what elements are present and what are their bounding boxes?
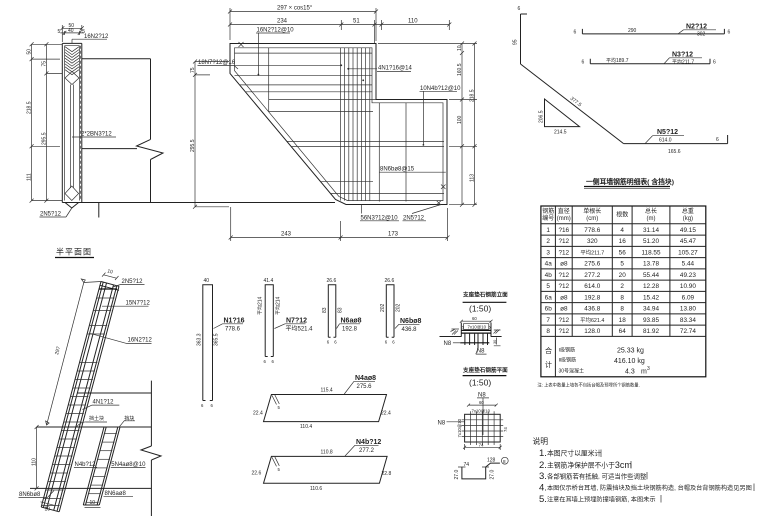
elevation: N8 label bottom — [476, 349, 487, 355]
svg-text:277.2: 277.2 — [359, 448, 375, 454]
right dim chain outer 218.5/113 — [470, 42, 477, 207]
svg-text:30号混凝土: 30号混凝土 — [559, 368, 585, 375]
svg-text:160.5: 160.5 — [457, 63, 463, 76]
svg-text:8N6bø8@15: 8N6bø8@15 — [380, 167, 415, 173]
bar N6aO8 U-shape — [322, 278, 344, 345]
dim 10 at strip top — [102, 268, 119, 280]
svg-text:173: 173 — [388, 232, 399, 238]
svg-text:ø8: ø8 — [560, 294, 568, 301]
svg-text:支座垫石钢筋立面: 支座垫石钢筋立面 — [462, 291, 508, 299]
svg-text:60: 60 — [472, 316, 477, 321]
slope triangle — [545, 99, 580, 127]
anchor mark bottom-right corner — [437, 201, 442, 205]
GROUP H: notes — [533, 436, 755, 505]
svg-text:10: 10 — [90, 500, 96, 506]
top dim row 234/51/110 — [228, 19, 451, 44]
svg-text:8: 8 — [620, 294, 624, 301]
svg-text:4.3: 4.3 — [625, 369, 635, 376]
svg-text:8: 8 — [620, 306, 624, 313]
bottom dim 243/173 — [229, 207, 450, 241]
svg-text:295.5: 295.5 — [41, 132, 47, 145]
svg-text:275.6: 275.6 — [357, 384, 373, 390]
svg-text:合: 合 — [545, 346, 552, 355]
svg-text:(cm): (cm) — [586, 216, 598, 222]
svg-text:平均211.7: 平均211.7 — [672, 58, 694, 65]
right block inner verticals — [379, 103, 406, 202]
elevation: cap box 7x10@10 — [462, 324, 491, 330]
left dim chain outer: 50 / 218.5 / 111 — [27, 42, 34, 202]
right dim extensions — [378, 44, 477, 205]
label 5N4aO8@10 — [111, 462, 146, 468]
svg-text:(mm): (mm) — [557, 216, 571, 222]
svg-text:(1:50): (1:50) — [469, 378, 491, 388]
svg-text:1: 1 — [546, 227, 550, 234]
right dim chain inner 10/160.5/100 — [457, 42, 464, 207]
ground line left of section — [99, 202, 335, 204]
label 15N7?12 — [102, 301, 151, 307]
bar N4b?12 parallelogram — [252, 449, 392, 491]
svg-text:20: 20 — [619, 272, 627, 279]
svg-text:3: 3 — [546, 249, 550, 256]
wire bottom — [82, 202, 151, 204]
GROUP E: bottom-left inclined elevation — [19, 268, 162, 516]
title 支座垫石钢筋立面 — [462, 291, 508, 314]
svg-text:根数: 根数 — [616, 211, 628, 219]
bar N3 line — [590, 59, 710, 64]
svg-text:2*2BN3?12: 2*2BN3?12 — [81, 132, 112, 138]
svg-text:74: 74 — [503, 427, 508, 432]
svg-text:93.85: 93.85 — [643, 317, 659, 324]
elevation: posts — [461, 323, 491, 337]
svg-text:5: 5 — [462, 326, 464, 330]
svg-text:6: 6 — [582, 59, 585, 65]
svg-text:?12: ?12 — [558, 317, 569, 324]
svg-text:7: 7 — [546, 317, 550, 324]
svg-text:总重: 总重 — [682, 207, 694, 215]
svg-text:N5?12: N5?12 — [657, 129, 678, 136]
bar N6bO8 U-shape — [380, 278, 402, 345]
svg-text:4b: 4b — [545, 272, 553, 279]
svg-text:165.6: 165.6 — [668, 149, 681, 155]
svg-text:41.4: 41.4 — [264, 278, 274, 284]
GROUP B: main cross-section view — [99, 6, 477, 242]
svg-text:778.6: 778.6 — [225, 327, 241, 333]
svg-text:218.5: 218.5 — [27, 101, 33, 114]
svg-text:7x10@10: 7x10@10 — [472, 409, 491, 414]
wall dashed bar line — [80, 46, 82, 201]
curved flare 挡块 — [119, 421, 135, 428]
title 半平面图 — [55, 247, 94, 258]
label N2?12 — [678, 23, 716, 37]
svg-text:N8: N8 — [438, 420, 446, 426]
svg-text:ø8: ø8 — [560, 261, 568, 268]
top bar bend diamond — [65, 72, 79, 85]
svg-text:N8: N8 — [477, 349, 485, 355]
second strip rungs — [86, 434, 117, 503]
svg-text:110.8: 110.8 — [321, 449, 333, 455]
bent bar diagonal segment — [521, 64, 624, 144]
svg-text:22.8: 22.8 — [382, 471, 392, 477]
svg-text:74: 74 — [464, 462, 470, 468]
table title — [584, 177, 674, 188]
horizontal ground line lower — [30, 487, 151, 489]
svg-text:5: 5 — [58, 29, 61, 35]
svg-text:113: 113 — [470, 174, 476, 182]
svg-text:31.14: 31.14 — [643, 227, 659, 234]
GROUP F: individual bar diagrams — [197, 278, 422, 492]
svg-text:5: 5 — [489, 326, 491, 330]
label N6aO8 — [337, 317, 362, 332]
label N4aO8 — [344, 375, 376, 394]
vertical bar left — [268, 48, 270, 112]
svg-text:N8: N8 — [444, 341, 452, 347]
svg-text:6: 6 — [574, 30, 577, 36]
horizontal line at block step — [269, 100, 376, 112]
anchor mark top-left — [239, 42, 244, 47]
svg-text:7x10@10: 7x10@10 — [468, 325, 487, 330]
svg-text:6: 6 — [728, 30, 731, 36]
svg-text:50: 50 — [27, 49, 33, 55]
svg-text:2N5?12: 2N5?12 — [403, 215, 425, 221]
svg-text:416.10 kg: 416.10 kg — [614, 358, 645, 365]
label 2*2BN3?12 — [72, 132, 116, 138]
elevation: N8 label left — [444, 341, 461, 347]
svg-text:614.0: 614.0 — [584, 283, 600, 290]
twin vertical bars — [71, 85, 74, 189]
svg-text:75: 75 — [190, 67, 196, 73]
svg-text:10: 10 — [106, 268, 113, 275]
svg-text:320: 320 — [587, 238, 598, 245]
bent bar vertical segment — [520, 14, 522, 64]
label 8N6bO8@15 — [380, 167, 446, 173]
svg-text:302: 302 — [697, 31, 706, 37]
svg-text:83.34: 83.34 — [680, 317, 696, 324]
svg-text:275.6: 275.6 — [584, 261, 600, 268]
svg-text:6: 6 — [713, 59, 716, 65]
svg-text:3.各部钢筋若有抵触, 可适当作些调整: 3.各部钢筋若有抵触, 可适当作些调整 — [539, 471, 647, 482]
svg-text:平均521.4: 平均521.4 — [286, 325, 314, 333]
plan: grid bars vertical — [471, 411, 495, 445]
svg-text:192.8: 192.8 — [584, 294, 600, 301]
main outline inner — [235, 48, 444, 201]
data rows — [545, 227, 698, 335]
svg-text:直径: 直径 — [558, 207, 570, 215]
svg-text:51: 51 — [353, 19, 360, 25]
svg-text:75: 75 — [41, 61, 47, 67]
label 16N2?12 elevation — [90, 333, 152, 343]
svg-text:277.2: 277.2 — [584, 272, 600, 279]
svg-text:15N7?12: 15N7?12 — [126, 301, 151, 307]
svg-text:6: 6 — [385, 340, 388, 345]
svg-text:56N3?12@10: 56N3?12@10 — [361, 215, 399, 221]
chevron hatch top anchorage — [65, 47, 79, 75]
svg-text:ø8: ø8 — [560, 306, 568, 313]
svg-text:N4b?12: N4b?12 — [75, 462, 97, 468]
svg-text:4: 4 — [620, 227, 624, 234]
bar N2 line — [582, 29, 724, 34]
svg-text:5: 5 — [620, 261, 624, 268]
svg-text:214.5: 214.5 — [554, 130, 567, 136]
svg-text:110.4: 110.4 — [300, 424, 312, 430]
svg-text:N1?16: N1?16 — [224, 317, 245, 324]
svg-text:一侧耳墙钢筋明细表( 含挡块): 一侧耳墙钢筋明细表( 含挡块) — [586, 177, 674, 186]
svg-text:平均211.7: 平均211.7 — [580, 248, 604, 256]
label 18N7?12@16 — [198, 60, 239, 69]
svg-text:6: 6 — [327, 340, 330, 345]
svg-text:110: 110 — [408, 19, 418, 25]
svg-text:Ⅰ级钢筋: Ⅰ级钢筋 — [559, 347, 575, 354]
svg-text:6: 6 — [716, 137, 719, 143]
svg-text:13.78: 13.78 — [643, 261, 659, 268]
svg-text:55.44: 55.44 — [643, 272, 659, 279]
svg-text:81.92: 81.92 — [643, 328, 659, 335]
label 4N1?16@14 — [347, 65, 412, 81]
svg-text:平均621.4: 平均621.4 — [580, 316, 604, 324]
label 16N2?12 — [72, 34, 109, 43]
svg-text:N4b?12: N4b?12 — [356, 439, 381, 446]
svg-text:22.4: 22.4 — [381, 411, 391, 417]
dim chain 75/295.5 beside main view — [190, 60, 229, 209]
svg-text:202: 202 — [380, 303, 386, 312]
svg-text:243: 243 — [281, 232, 292, 238]
svg-text:5: 5 — [278, 405, 281, 410]
svg-text:30: 30 — [493, 340, 497, 344]
label 8N6bO8 — [19, 491, 55, 498]
svg-text:297: 297 — [54, 346, 62, 356]
svg-text:115.4: 115.4 — [321, 388, 333, 394]
svg-text:2.主钢筋净保护层不小于3cm: 2.主钢筋净保护层不小于3cm — [539, 460, 632, 471]
dim 297 inclined — [46, 279, 101, 425]
svg-text:10N4b?12@10: 10N4b?12@10 — [420, 86, 461, 92]
bottom point — [65, 203, 79, 209]
elevation: slab band — [461, 330, 491, 333]
svg-text:挡块: 挡块 — [124, 415, 134, 422]
svg-text:128.0: 128.0 — [584, 328, 600, 335]
label N6bO8 — [395, 318, 422, 333]
svg-text:2N5?12: 2N5?12 — [40, 212, 62, 218]
horizontal line mid — [77, 392, 151, 394]
totals cell — [545, 346, 650, 376]
svg-text:22.6: 22.6 — [252, 471, 262, 477]
plan: N8 label left — [438, 420, 465, 426]
svg-text:49.15: 49.15 — [680, 227, 696, 234]
label N5?12 — [645, 129, 684, 144]
svg-text:N6aø8: N6aø8 — [341, 317, 362, 324]
svg-text:2: 2 — [620, 283, 624, 290]
curved flare 挡土块 — [76, 422, 107, 427]
svg-text:26.6: 26.6 — [385, 278, 395, 284]
GROUP G: bearing pad detail views — [438, 291, 509, 480]
svg-text:13.80: 13.80 — [680, 306, 696, 313]
svg-text:18: 18 — [619, 317, 627, 324]
label 2N5?12 — [113, 279, 145, 287]
svg-text:10.90: 10.90 — [680, 283, 696, 290]
elevation: N8 legs — [465, 333, 488, 348]
svg-text:4a: 4a — [545, 261, 553, 268]
label 4N1?12 — [83, 399, 120, 409]
label N3?12 — [664, 51, 702, 65]
svg-text:202: 202 — [396, 303, 402, 312]
right vertical with break — [141, 381, 161, 516]
svg-text:?12: ?12 — [558, 249, 569, 256]
svg-text:6: 6 — [392, 340, 395, 345]
label 2N5?12 bottom — [403, 205, 442, 222]
svg-text:778.6: 778.6 — [584, 227, 600, 234]
svg-text:(kg): (kg) — [683, 216, 693, 222]
svg-text:7x10@10: 7x10@10 — [457, 418, 462, 437]
lower dense rungs — [42, 363, 98, 506]
plan: grid box — [465, 414, 501, 442]
right vertical with break symbol — [137, 59, 164, 203]
svg-text:16: 16 — [619, 238, 627, 245]
vertical bar bundle — [340, 48, 369, 201]
svg-text:6: 6 — [272, 359, 275, 364]
label N7?12 — [275, 317, 314, 332]
table column lines — [555, 206, 670, 377]
elevation: N8 horizontal bar — [460, 342, 489, 344]
svg-text:(m): (m) — [647, 216, 656, 222]
svg-text:365.5: 365.5 — [214, 333, 220, 346]
svg-text:290: 290 — [628, 28, 637, 34]
svg-text:8N6bø8: 8N6bø8 — [19, 492, 41, 498]
svg-text:单根长: 单根长 — [583, 207, 601, 215]
svg-text:95: 95 — [513, 39, 519, 45]
second block strip edges — [83, 427, 120, 505]
svg-text:编号: 编号 — [542, 214, 554, 222]
upper rungs — [0, 0, 1, 1]
svg-text:Ⅱ级钢筋: Ⅱ级钢筋 — [559, 357, 576, 364]
svg-text:计: 计 — [545, 360, 552, 369]
svg-text:2: 2 — [546, 238, 550, 245]
horizontal rebar lines top block — [235, 53, 373, 92]
bar N4aO8 parallelogram — [253, 388, 391, 431]
svg-text:总长: 总长 — [645, 207, 657, 215]
svg-text:半平面图: 半平面图 — [56, 247, 92, 257]
svg-text:436.8: 436.8 — [402, 327, 418, 333]
svg-text:614.0: 614.0 — [659, 138, 672, 144]
wall inner face lines — [65, 46, 80, 201]
svg-text:27.0: 27.0 — [490, 470, 496, 480]
svg-text:5: 5 — [546, 283, 550, 290]
svg-text:56: 56 — [619, 249, 627, 256]
GROUP D: rebar schedule table — [537, 206, 705, 389]
svg-text:?12: ?12 — [558, 238, 569, 245]
elevation: right hatch and dims — [494, 330, 501, 346]
svg-text:钢筋: 钢筋 — [542, 207, 554, 215]
svg-text:5: 5 — [278, 467, 281, 472]
svg-text:110.6: 110.6 — [310, 486, 322, 492]
svg-text:363.3: 363.3 — [197, 333, 203, 346]
svg-text:1.本图尺寸以厘米计: 1.本图尺寸以厘米计 — [539, 448, 602, 459]
svg-text:?12: ?12 — [558, 283, 569, 290]
label 16N2?12@10 — [256, 28, 294, 76]
svg-text:18N7?12@16: 18N7?12@16 — [198, 60, 236, 66]
bottom bar bend diamond — [65, 186, 79, 201]
svg-text:6: 6 — [264, 359, 267, 364]
plan: top dim 60 — [467, 400, 498, 407]
svg-text:83: 83 — [338, 307, 344, 313]
svg-text:234: 234 — [277, 19, 288, 25]
svg-text:206.5: 206.5 — [539, 110, 545, 123]
svg-text:?12: ?12 — [558, 328, 569, 335]
elevation: top dim 60 — [460, 316, 493, 323]
label N4b?12 — [345, 439, 381, 456]
wire mid with break — [82, 148, 137, 150]
svg-text:10: 10 — [457, 45, 463, 51]
svg-text:26.6: 26.6 — [327, 278, 337, 284]
svg-text:22.4: 22.4 — [253, 411, 263, 417]
top dim 50 — [60, 23, 84, 42]
plan: grid bars horizontal — [462, 420, 504, 437]
svg-text:6: 6 — [211, 403, 214, 408]
svg-text:4N1?12: 4N1?12 — [93, 399, 115, 405]
elevation: left hatch — [451, 329, 460, 335]
svg-text:111: 111 — [27, 173, 33, 181]
svg-text:N6bø8: N6bø8 — [400, 318, 422, 325]
svg-text:25.33 kg: 25.33 kg — [617, 348, 644, 355]
svg-text:2N5?12: 2N5?12 — [122, 279, 144, 285]
header texts — [542, 207, 694, 222]
svg-text:8: 8 — [503, 459, 506, 464]
top dim 297xcos15 — [228, 6, 378, 42]
svg-text:3: 3 — [647, 366, 650, 372]
svg-text:83: 83 — [322, 307, 328, 313]
top dim 40 and 5s — [58, 28, 86, 35]
svg-text:N2?12: N2?12 — [686, 23, 707, 30]
svg-text:4N1?16@14: 4N1?16@14 — [378, 65, 412, 71]
left dim chain inner: 75 / 295.5 — [41, 42, 48, 202]
svg-text:N3?12: N3?12 — [672, 51, 693, 58]
svg-text:说明: 说明 — [533, 436, 549, 446]
title 支座垫石钢筋平面 — [462, 366, 508, 388]
svg-text:6: 6 — [518, 6, 521, 12]
svg-text:10: 10 — [45, 506, 51, 512]
lower horizontals crossing blocks — [287, 141, 444, 193]
svg-text:72.74: 72.74 — [680, 328, 696, 335]
bar N1?16 U-shape — [197, 278, 220, 408]
svg-text:100: 100 — [457, 115, 463, 124]
label N1?16 — [214, 317, 245, 332]
svg-text:15.42: 15.42 — [643, 294, 659, 301]
bent bar N5 profile: top hook — [521, 13, 528, 15]
inclined wall strip edges — [41, 282, 119, 512]
elevation: ground lines — [440, 336, 502, 338]
svg-text:(1:50): (1:50) — [469, 304, 491, 314]
dim 110 left — [32, 425, 39, 490]
svg-text:218.5: 218.5 — [470, 89, 476, 102]
bottom tip dim 10 — [41, 502, 54, 513]
svg-text:6: 6 — [201, 403, 204, 408]
svg-text:5.注意在耳墙上预埋防撞墙钢筋, 本图未示: 5.注意在耳墙上预埋防撞墙钢筋, 本图未示 — [539, 494, 656, 505]
svg-text:平均214: 平均214 — [257, 296, 264, 315]
GROUP C: top-right bar bend shapes — [513, 6, 731, 188]
anchor mark right block — [441, 185, 446, 190]
svg-text:436.8: 436.8 — [584, 306, 600, 313]
table outer border — [541, 206, 706, 377]
svg-text:N8: N8 — [478, 392, 486, 398]
svg-text:110: 110 — [32, 458, 38, 466]
svg-text:16N2?12@10: 16N2?12@10 — [257, 28, 295, 34]
svg-text:N7?12: N7?12 — [286, 317, 307, 324]
label 8N6aO8 — [104, 491, 134, 497]
svg-text:平均214: 平均214 — [275, 296, 282, 315]
svg-text:注: 上表中数量上墙各不包括台帽及预埋所个钢筋数量.: 注: 上表中数量上墙各不包括台帽及预埋所个钢筋数量. — [537, 382, 639, 389]
bent bar horizontal segment with end hook — [624, 135, 728, 144]
circled 8 — [501, 457, 508, 464]
svg-text:8: 8 — [546, 328, 550, 335]
svg-text:40: 40 — [204, 278, 210, 284]
svg-text:60: 60 — [479, 400, 484, 405]
